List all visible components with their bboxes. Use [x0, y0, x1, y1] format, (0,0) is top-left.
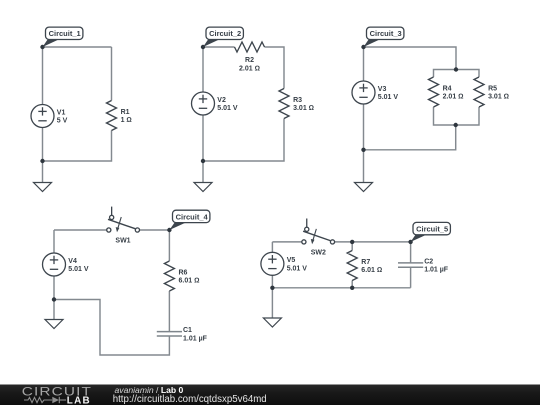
wire top-left C5: [272, 241, 301, 243]
wire left C1: [42, 47, 44, 105]
node top-left C2: [201, 45, 205, 49]
node top-left C3: [361, 45, 365, 49]
resistor R4: [429, 77, 439, 107]
svg-text:5.01 V: 5.01 V: [287, 265, 308, 272]
wire parallel bottom bus: [434, 107, 480, 125]
resistor R6: [164, 261, 174, 291]
svg-text:V3: V3: [378, 86, 387, 93]
node bottom C1: [40, 159, 44, 163]
wire switch to nodes C5: [335, 241, 411, 243]
node C4 top: [167, 228, 171, 232]
capacitor C1: [157, 332, 182, 336]
ground: [45, 320, 63, 329]
wire top C1: [43, 46, 112, 48]
svg-text:1 Ω: 1 Ω: [121, 117, 132, 124]
svg-text:R3: R3: [293, 97, 302, 104]
svg-text:Circuit_1: Circuit_1: [49, 29, 81, 38]
label Circuit_5: [411, 222, 451, 242]
svg-text:C2: C2: [424, 258, 433, 265]
svg-text:SW2: SW2: [311, 249, 326, 256]
wire V5 bottom lead: [271, 275, 273, 288]
wire left C2: [202, 47, 204, 92]
wire right C1: [111, 47, 113, 101]
voltage source V3: [352, 81, 375, 104]
svg-text:3.01 Ω: 3.01 Ω: [293, 105, 314, 112]
svg-text:R5: R5: [488, 85, 497, 92]
ground: [34, 183, 52, 192]
svg-text:V4: V4: [68, 258, 77, 265]
wire top-right C2: [265, 47, 285, 89]
wire top C3: [364, 47, 457, 70]
svg-text:LAB: LAB: [67, 395, 91, 405]
wire ground stub C5: [271, 288, 273, 318]
ground: [355, 183, 373, 192]
footer bar: [0, 385, 540, 405]
switch SW1: [107, 207, 140, 233]
wire V3 bottom lead: [363, 104, 365, 150]
node R7 bottom: [350, 286, 354, 290]
svg-text:Circuit_5: Circuit_5: [416, 225, 448, 234]
svg-text:6.01 Ω: 6.01 Ω: [179, 278, 200, 285]
resistor R3: [279, 89, 289, 119]
svg-text:http://circuitlab.com/cqtdsxp5: http://circuitlab.com/cqtdsxp5v64md: [113, 394, 267, 405]
svg-text:5 V: 5 V: [57, 118, 68, 125]
svg-text:SW1: SW1: [115, 238, 130, 245]
wire ground stub C3: [363, 150, 365, 183]
node bottom C3: [361, 148, 365, 152]
wire R6 top lead: [168, 230, 170, 261]
svg-text:R2: R2: [245, 57, 254, 64]
label Circuit_4: [169, 210, 210, 230]
logo symbol: [24, 397, 66, 403]
node bus top C3: [454, 67, 458, 71]
node R7 top: [350, 240, 354, 244]
voltage source V1: [31, 105, 54, 128]
svg-text:R7: R7: [361, 259, 370, 266]
voltage source V2: [192, 92, 215, 115]
wire R6 to C1: [168, 291, 170, 331]
svg-text:V2: V2: [217, 97, 226, 104]
label Circuit_1: [43, 27, 83, 47]
wire bottom C1: [43, 131, 112, 162]
resistor R2: [235, 42, 265, 52]
capacitor C2: [398, 263, 423, 267]
resistor R7: [347, 251, 357, 281]
wire bottom C2: [203, 119, 284, 162]
ground: [194, 183, 212, 192]
wire V2 bottom lead: [202, 115, 204, 161]
wire V5 top lead: [271, 242, 273, 253]
svg-text:R6: R6: [179, 269, 188, 276]
wire V4 top lead: [53, 230, 55, 253]
wire parallel top bus: [434, 70, 480, 78]
svg-text:5.01 V: 5.01 V: [217, 105, 238, 112]
svg-text:1.01 µF: 1.01 µF: [424, 267, 449, 274]
svg-text:1.01 µF: 1.01 µF: [183, 335, 208, 342]
wire ground stub C1: [42, 161, 44, 183]
node bottom C2: [201, 159, 205, 163]
node C5 bottom: [270, 286, 274, 290]
svg-text:2.01 Ω: 2.01 Ω: [239, 66, 260, 73]
wire C2 top lead: [410, 242, 412, 263]
wire C1 bottom path: [54, 300, 169, 356]
wire V4 bottom lead: [53, 276, 55, 300]
voltage source V5: [261, 252, 284, 275]
svg-text:5.01 V: 5.01 V: [378, 94, 399, 101]
svg-text:C1: C1: [183, 327, 192, 334]
wire V1 bottom lead: [42, 127, 44, 161]
wire switch to node C4: [140, 229, 170, 231]
svg-text:3.01 Ω: 3.01 Ω: [488, 94, 509, 101]
svg-text:6.01 Ω: 6.01 Ω: [361, 267, 382, 274]
wire top-left C4: [54, 229, 107, 231]
svg-text:R4: R4: [443, 85, 452, 92]
node bus bottom C3: [454, 123, 458, 127]
resistor R5: [474, 77, 484, 107]
svg-text:5.01 V: 5.01 V: [68, 266, 89, 273]
wire bottom C5: [272, 287, 410, 289]
wire top-left C2: [203, 46, 235, 48]
wire ground stub C4: [53, 300, 55, 320]
wire ground stub C2: [202, 161, 204, 183]
ground: [263, 318, 281, 327]
label Circuit_2: [203, 27, 243, 47]
svg-text:Circuit_3: Circuit_3: [370, 29, 402, 38]
wire C2 bottom lead: [410, 267, 412, 287]
svg-text:2.01 Ω: 2.01 Ω: [443, 94, 464, 101]
resistor R1: [107, 101, 117, 131]
voltage source V4: [43, 253, 66, 276]
wire bottom C3: [364, 125, 456, 150]
svg-text:Circuit_2: Circuit_2: [209, 29, 241, 38]
wire left C3: [363, 47, 365, 81]
svg-text:V5: V5: [287, 257, 296, 264]
node top-left C1: [40, 45, 44, 49]
wire R7 top lead: [351, 242, 353, 251]
svg-text:R1: R1: [121, 109, 130, 116]
svg-text:V1: V1: [57, 109, 66, 116]
node C4 bottom: [52, 297, 56, 301]
wire R7 bottom lead: [351, 281, 353, 288]
node C5 top: [408, 240, 412, 244]
svg-text:Circuit_4: Circuit_4: [176, 212, 209, 221]
switch SW2: [302, 219, 335, 245]
label Circuit_3: [364, 27, 404, 47]
